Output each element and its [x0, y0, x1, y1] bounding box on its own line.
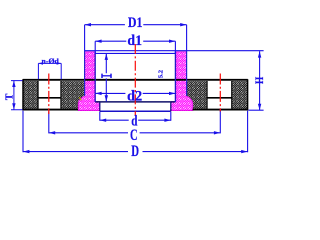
flange plate hatch right-outer section — [232, 81, 247, 109]
plate outline top edge — [23, 79, 248, 81]
svg-text:C: C — [130, 127, 138, 144]
bore wall right (d1/d2) — [174, 52, 176, 102]
flange plate hatch left-outer section — [23, 81, 37, 109]
bore wall left (d1/d2) — [94, 52, 96, 102]
dimension C — [49, 109, 221, 134]
svg-text:5.2: 5.2 — [158, 70, 165, 78]
bolt hole right inner line — [207, 97, 233, 99]
dimension T — [11, 81, 23, 110]
olive artifact tick at left flare junction — [79, 97, 81, 100]
dimension d1 — [95, 41, 175, 53]
dimension D1 — [85, 25, 187, 52]
d-bore wall right — [170, 102, 172, 111]
svg-text:T: T — [4, 94, 15, 101]
hub outer edge right — [186, 52, 188, 97]
plate right edge — [247, 79, 249, 110]
socket hub hatch right wall and flare — [171, 52, 193, 111]
dimension H — [249, 51, 264, 110]
red centerline left bolt — [48, 74, 50, 115]
rotated numeral 1 label — [102, 74, 111, 78]
red centerline main — [134, 44, 136, 116]
dimension d2 — [95, 92, 175, 94]
svg-text:D: D — [131, 143, 139, 160]
socket hub hatch left wall and flare — [78, 52, 99, 111]
dimension n-holes (n-Og) — [38, 63, 61, 79]
plate left edge — [22, 79, 24, 110]
flange plate hatch right-inner section — [187, 81, 207, 109]
d-bore wall left — [99, 102, 101, 111]
svg-text:H: H — [254, 77, 266, 84]
svg-text:n-Ød: n-Ød — [42, 59, 60, 66]
svg-text:D1: D1 — [128, 15, 143, 31]
socket bottom shoulder line — [95, 101, 175, 103]
socket depth dim (1) — [105, 54, 107, 102]
bore bottom far-side line — [100, 110, 171, 112]
bolt hole left edges — [38, 81, 61, 109]
red centerline right bolt — [219, 74, 221, 112]
bolt hole right edges — [207, 81, 232, 109]
svg-text:d2: d2 — [127, 89, 142, 105]
bolt hole left inner line — [38, 97, 62, 99]
flange cross-section technical drawing — [0, 0, 278, 178]
dimension D — [23, 111, 248, 152]
dimension d — [100, 112, 171, 121]
plate outline bottom edge — [23, 109, 78, 111]
flange plate hatch left-inner section — [62, 81, 84, 109]
hub outer edge left — [84, 52, 86, 97]
hub top edge line A (continues as H extension line) — [85, 50, 264, 52]
hub socket far top edge line B — [95, 52, 175, 54]
